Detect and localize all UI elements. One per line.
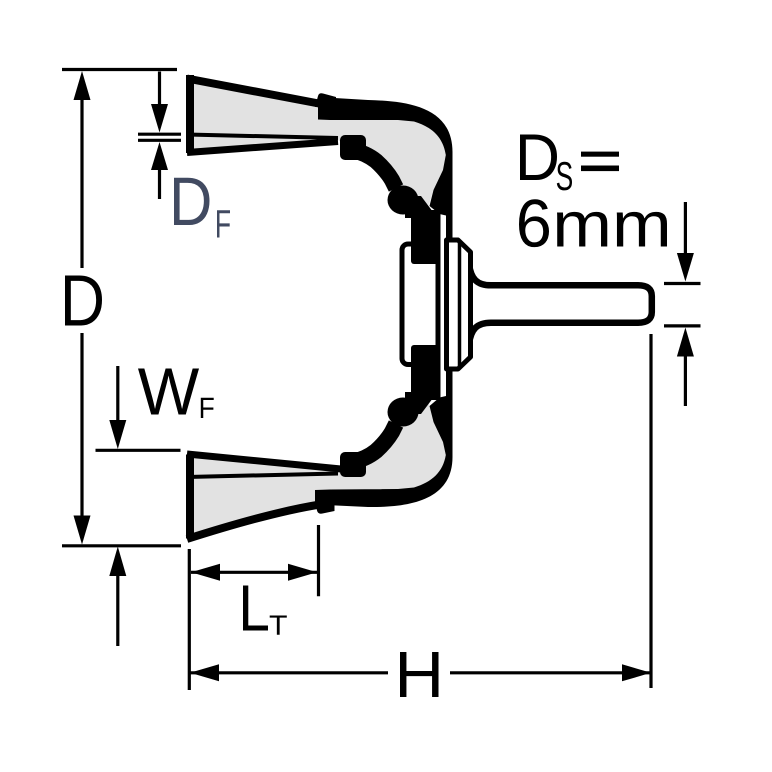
label DS= [520,135,557,181]
bottom crimp bump [316,503,335,514]
bottom neck column [411,345,441,400]
label 6 mm [519,199,549,247]
top rim tab [340,135,366,160]
shank outline [469,264,652,344]
label WF [138,369,199,415]
label LT [243,586,268,631]
dimension DS up arrow [677,328,694,357]
dimension WF tick [96,449,181,452]
dimension WF down arrow [109,420,126,449]
top cup wedge outline [187,75,338,153]
dimension DF upper line [158,72,161,107]
label DF [174,178,210,225]
dimension WF lower line [116,574,119,646]
top crimp bump [315,93,336,107]
shank interior [470,289,649,320]
bottom S-curve [352,424,396,462]
bottom bulge [388,398,419,427]
bottom cup wedge outline [187,454,341,539]
dimension WF upper line [116,366,119,422]
bottom brush filament fill (gray) [187,404,446,539]
dimension DF up arrow [151,142,168,170]
dimension DS ticks [664,284,701,326]
bottom rim tab [340,452,366,477]
nut / flange [447,240,471,369]
dimension D top arrow [74,71,91,100]
bottom band + elbow [315,371,453,507]
dimension DS line lower [684,354,687,406]
dimension DF lower line [158,168,161,199]
dimension LT left arrow [191,564,220,581]
top S-curve [352,150,396,188]
dimension DF down arrow [151,104,168,133]
dimension D vertical line [80,98,83,517]
dimension D top extension line [62,68,177,71]
label D [65,276,102,326]
dimension DS down arrow [677,253,694,282]
top bulge [388,186,419,215]
dimension H left arrow [190,664,219,681]
dimension DF ticks [138,134,181,140]
dimension D bottom extension line [62,544,181,547]
label H [400,652,439,697]
dimension H right arrow [622,664,651,681]
dimension LT right arrow [288,564,317,581]
dimension LT line [191,571,317,574]
dimension DS line upper [684,202,687,255]
top brush filament fill (gray) [187,77,446,205]
washer plate [402,244,438,365]
top band + elbow (cup back) [318,97,453,240]
dimension WF up arrow [109,547,126,577]
dimension D bottom arrow [74,516,91,545]
top neck column [411,210,441,264]
dimension LT right extension line [317,525,320,596]
dimension LT left extension line [188,549,191,690]
dimension H line [190,671,651,674]
dimension H right extension line [649,334,652,688]
